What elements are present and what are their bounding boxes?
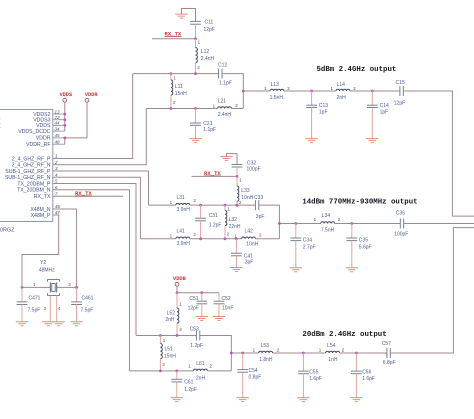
- svg-text:C35: C35: [359, 238, 368, 244]
- svg-text:Y2: Y2: [40, 260, 46, 266]
- svg-text:C57: C57: [382, 341, 391, 347]
- svg-text:VDDR_RF: VDDR_RF: [26, 142, 51, 148]
- svg-text:C54: C54: [249, 368, 258, 374]
- svg-text:3.9nH: 3.9nH: [177, 207, 191, 213]
- svg-text:1nH: 1nH: [328, 357, 338, 363]
- svg-text:C11: C11: [205, 19, 214, 25]
- svg-text:10nF: 10nF: [222, 306, 233, 312]
- svg-text:VDDB: VDDB: [173, 276, 187, 282]
- svg-text:VDDS3: VDDS3: [33, 118, 50, 124]
- svg-text:L33: L33: [241, 188, 250, 194]
- svg-text:7.5nH: 7.5nH: [321, 227, 335, 233]
- svg-text:7.5pF: 7.5pF: [81, 307, 94, 313]
- svg-text:L32: L32: [229, 217, 238, 223]
- svg-text:C41: C41: [244, 253, 253, 259]
- svg-text:34: 34: [55, 126, 61, 131]
- svg-text:2.7pF: 2.7pF: [303, 244, 316, 250]
- svg-text:VDDS_DCDC: VDDS_DCDC: [18, 129, 51, 135]
- svg-text:C34: C34: [303, 238, 312, 244]
- svg-text:C21: C21: [203, 121, 212, 127]
- svg-text:2.4nH: 2.4nH: [201, 56, 215, 62]
- svg-text:0.8pF: 0.8pF: [249, 374, 262, 380]
- svg-text:100pF: 100pF: [247, 167, 261, 173]
- svg-text:C61: C61: [184, 379, 193, 385]
- svg-text:X48M_P: X48M_P: [31, 213, 51, 219]
- svg-text:45: 45: [55, 133, 61, 138]
- svg-text:2_4_GHZ_RF_N: 2_4_GHZ_RF_N: [12, 163, 51, 169]
- svg-text:C13: C13: [319, 103, 328, 109]
- svg-text:C53: C53: [190, 326, 199, 332]
- svg-text:C15: C15: [396, 80, 405, 86]
- svg-text:1.5nH: 1.5nH: [270, 95, 284, 101]
- svg-text:1pF: 1pF: [380, 110, 389, 116]
- svg-text:L34: L34: [322, 213, 331, 219]
- svg-text:C55: C55: [309, 370, 318, 376]
- svg-text:X48M_N: X48M_N: [30, 207, 50, 213]
- svg-text:14dBm 770MHz-930MHz output: 14dBm 770MHz-930MHz output: [302, 198, 417, 206]
- svg-text:C51: C51: [189, 296, 198, 302]
- svg-text:15nH: 15nH: [175, 91, 187, 97]
- svg-text:L31: L31: [177, 195, 186, 201]
- svg-text:48MHz: 48MHz: [39, 268, 55, 274]
- svg-text:SUB-1_GHZ_RF_P: SUB-1_GHZ_RF_P: [5, 169, 51, 175]
- svg-text:C471: C471: [29, 295, 41, 301]
- svg-text:1.6pF: 1.6pF: [309, 376, 322, 382]
- svg-text:7.5pF: 7.5pF: [28, 307, 41, 313]
- svg-text:1.1pF: 1.1pF: [203, 127, 216, 133]
- svg-text:1pF: 1pF: [319, 110, 328, 116]
- svg-text:TX_20DBM_N: TX_20DBM_N: [17, 188, 51, 194]
- svg-text:1.6pF: 1.6pF: [362, 376, 375, 382]
- svg-text:2nH: 2nH: [196, 376, 206, 382]
- svg-text:L11: L11: [175, 84, 183, 90]
- svg-text:C33: C33: [254, 195, 263, 201]
- svg-text:VDDS: VDDS: [36, 123, 51, 129]
- svg-text:C56: C56: [362, 370, 371, 376]
- svg-text:6.8pF: 6.8pF: [383, 360, 396, 366]
- svg-text:10nH: 10nH: [241, 195, 253, 201]
- svg-text:C36: C36: [396, 211, 405, 217]
- svg-text:13: 13: [55, 109, 61, 114]
- svg-text:3.9nH: 3.9nH: [177, 241, 191, 247]
- svg-text:L53: L53: [261, 343, 270, 349]
- svg-text:VDDR: VDDR: [85, 92, 99, 98]
- svg-text:44: 44: [55, 121, 61, 126]
- svg-text:3pF: 3pF: [256, 214, 265, 220]
- svg-text:L21: L21: [218, 99, 227, 105]
- svg-text:46: 46: [55, 204, 61, 209]
- svg-text:L61: L61: [196, 361, 205, 367]
- svg-text:2nH: 2nH: [165, 317, 175, 323]
- svg-text:1.8nH: 1.8nH: [259, 357, 273, 363]
- svg-text:2_4_GHZ_RF_P: 2_4_GHZ_RF_P: [12, 156, 51, 162]
- svg-text:L42: L42: [245, 229, 254, 235]
- svg-text:47: 47: [55, 210, 61, 215]
- svg-text:C52: C52: [222, 296, 231, 302]
- svg-text:L52: L52: [167, 310, 176, 316]
- svg-text:1.2pF: 1.2pF: [184, 387, 197, 393]
- svg-text:1.2pF: 1.2pF: [209, 222, 222, 228]
- svg-text:C32: C32: [247, 161, 256, 167]
- svg-text:5dBm 2.4GHz output: 5dBm 2.4GHz output: [317, 66, 397, 74]
- svg-text:48: 48: [55, 140, 61, 145]
- svg-text:L41: L41: [177, 229, 186, 235]
- svg-text:5.6pF: 5.6pF: [359, 244, 372, 250]
- svg-text:20dBm 2.4GHz output: 20dBm 2.4GHz output: [302, 331, 386, 339]
- svg-text:L51: L51: [165, 347, 174, 353]
- svg-text:L12: L12: [201, 49, 210, 55]
- svg-text:15nH: 15nH: [164, 353, 176, 359]
- svg-text:22nH: 22nH: [229, 224, 241, 230]
- svg-text:C14: C14: [380, 103, 389, 109]
- svg-text:2.4nH: 2.4nH: [218, 112, 232, 118]
- svg-text:L54: L54: [327, 343, 336, 349]
- svg-text:SUB-1_GHZ_RF_N: SUB-1_GHZ_RF_N: [5, 175, 51, 181]
- svg-text:RX_TX: RX_TX: [34, 194, 51, 200]
- svg-text:VDDS: VDDS: [59, 92, 73, 98]
- svg-text:1.1pF: 1.1pF: [219, 80, 232, 86]
- svg-text:C12: C12: [218, 62, 227, 68]
- svg-text:TX_20DBM_P: TX_20DBM_P: [17, 181, 51, 187]
- svg-text:12pF: 12pF: [394, 100, 405, 106]
- svg-text:L13: L13: [271, 82, 280, 88]
- svg-text:100pF: 100pF: [394, 231, 408, 237]
- svg-text:0RGZ: 0RGZ: [0, 227, 15, 233]
- svg-text:12pF: 12pF: [204, 27, 215, 33]
- svg-text:22: 22: [54, 115, 61, 120]
- svg-text:12pF: 12pF: [188, 306, 199, 312]
- svg-text:C461: C461: [82, 295, 94, 301]
- svg-text:3pF: 3pF: [245, 259, 254, 265]
- svg-text:10nH: 10nH: [246, 242, 258, 248]
- svg-text:VDDS2: VDDS2: [33, 112, 50, 118]
- svg-text:1.2pF: 1.2pF: [190, 343, 203, 349]
- svg-text:C31: C31: [209, 213, 218, 219]
- svg-text:2nH: 2nH: [337, 95, 347, 101]
- svg-text:VDDR: VDDR: [36, 136, 51, 142]
- svg-text:L14: L14: [337, 82, 346, 88]
- svg-text:2: 2: [54, 160, 58, 165]
